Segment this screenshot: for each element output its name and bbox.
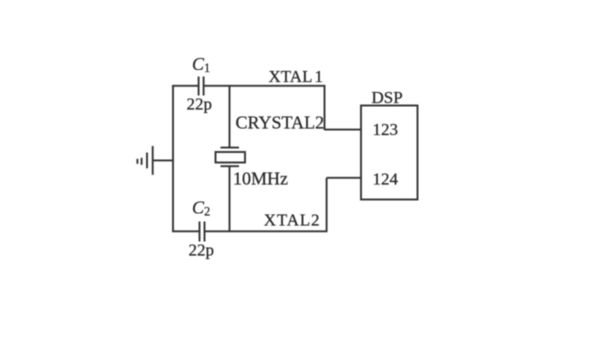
ground <box>137 146 173 175</box>
svg-text:XTAL2: XTAL2 <box>264 211 320 230</box>
wire: left vertical rail <box>172 86 174 232</box>
crystal body <box>216 152 246 163</box>
crystal top plate <box>221 147 240 149</box>
wire: vertical drop to pin 123 <box>324 86 326 130</box>
wire: crystal branch lower segment <box>229 166 231 231</box>
svg-text:10MHz: 10MHz <box>233 169 288 189</box>
DSP U1 box <box>361 106 418 200</box>
svg-text:22p: 22p <box>187 95 213 114</box>
capacitor C1 <box>199 77 204 96</box>
svg-text:124: 124 <box>373 170 399 189</box>
wire: vertical rise to pin 124 <box>326 178 328 232</box>
svg-text:22p: 22p <box>189 241 215 260</box>
wire: bottom rail left of C2 <box>172 230 199 232</box>
svg-text:XTAL1: XTAL1 <box>269 67 323 86</box>
wire: bottom rail XTAL2 segment <box>205 230 328 232</box>
svg-text:123: 123 <box>373 120 399 139</box>
svg-text:C2: C2 <box>192 198 210 219</box>
wire: pin 124 horizontal <box>327 177 361 179</box>
svg-text:DSP: DSP <box>372 88 403 107</box>
crystal bottom plate <box>221 165 240 167</box>
svg-text:CRYSTAL2: CRYSTAL2 <box>236 113 325 133</box>
wire: top rail left of C1 <box>172 85 198 87</box>
wire: top rail XTAL1 segment <box>204 85 326 87</box>
svg-text:C1: C1 <box>192 54 210 75</box>
wire: pin 123 horizontal <box>325 129 362 131</box>
wire: crystal branch upper segment <box>229 86 231 148</box>
capacitor C2 <box>200 222 205 242</box>
